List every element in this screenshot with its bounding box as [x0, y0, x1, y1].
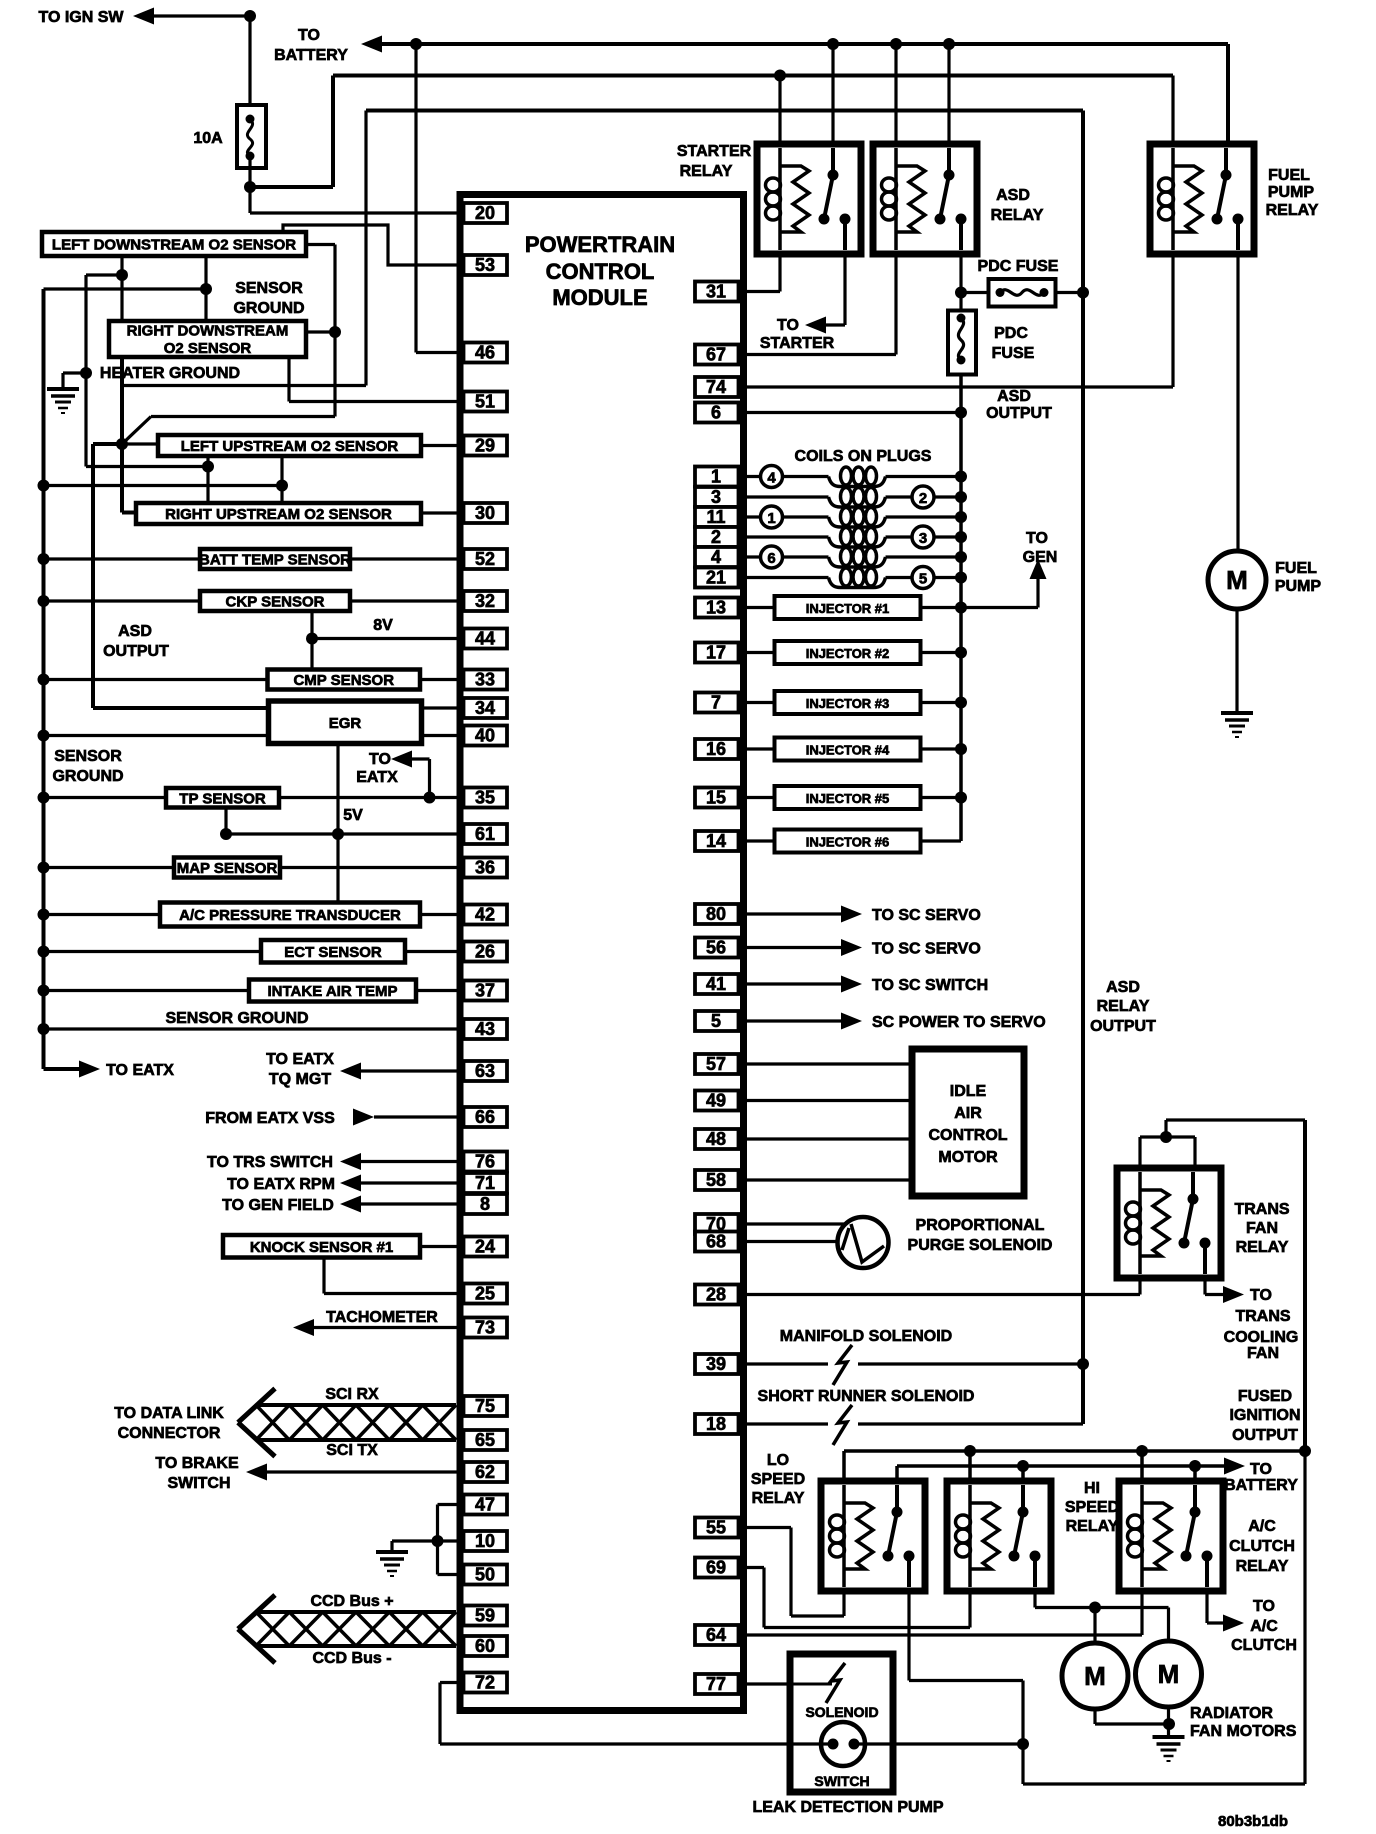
ground symbol (fuel pump) — [1221, 713, 1253, 737]
svg-text:RELAY: RELAY — [1097, 998, 1150, 1015]
node TO GEN — [961, 530, 1057, 608]
svg-text:57: 57 — [706, 1054, 726, 1074]
svg-text:CCD Bus +: CCD Bus + — [310, 1593, 393, 1610]
svg-text:72: 72 — [475, 1673, 495, 1693]
pin 73 (left) — [464, 1318, 508, 1338]
wire starter relay switch to battery rail — [831, 44, 834, 144]
svg-text:FUSED: FUSED — [1238, 1388, 1292, 1405]
label ASD RELAY OUTPUT (net) — [1090, 979, 1156, 1035]
wire map sensor to pin 36 — [280, 866, 464, 869]
relay hi speed relay — [947, 1481, 1051, 1591]
svg-text:MAP SENSOR: MAP SENSOR — [177, 860, 278, 877]
svg-text:8: 8 — [480, 1194, 490, 1214]
svg-text:OUTPUT: OUTPUT — [103, 643, 169, 660]
svg-text:30: 30 — [475, 503, 495, 523]
svg-text:18: 18 — [706, 1414, 726, 1434]
label SCI TX — [326, 1442, 378, 1459]
svg-text:INJECTOR #5: INJECTOR #5 — [806, 791, 890, 806]
svg-text:ASD: ASD — [118, 623, 152, 640]
svg-text:STARTER: STARTER — [760, 335, 835, 352]
cylinder number 4 — [761, 466, 783, 488]
label SENSOR GROUND (mid-left) — [52, 748, 123, 785]
sensor INTAKE AIR TEMP — [38, 985, 250, 997]
svg-text:58: 58 — [706, 1170, 726, 1190]
injector #3 — [775, 691, 921, 714]
svg-text:14: 14 — [706, 831, 726, 851]
pin 40 (left) — [464, 726, 508, 746]
svg-text:FAN MOTORS: FAN MOTORS — [1190, 1723, 1297, 1740]
wire pin 68 to purge solenoid — [739, 1240, 838, 1243]
label 80b3b1db — [1218, 1813, 1288, 1830]
sensor KNOCK SENSOR #1 — [223, 1235, 420, 1258]
node HEATER GROUND — [80, 365, 240, 382]
pin 10 (left) — [464, 1531, 508, 1551]
svg-text:80b3b1db: 80b3b1db — [1218, 1813, 1288, 1830]
wire EGR to pin 34 — [422, 706, 464, 709]
pin 7 (right) — [695, 693, 739, 713]
pin 28 (right) — [695, 1285, 739, 1305]
svg-text:24: 24 — [475, 1237, 495, 1257]
svg-text:FAN: FAN — [1247, 1345, 1279, 1362]
cylinder number 5 — [912, 567, 934, 589]
svg-text:40: 40 — [475, 726, 495, 746]
coil inductor row 1 — [829, 467, 886, 487]
coil inductor row 2 — [829, 488, 886, 508]
svg-text:1: 1 — [711, 467, 721, 487]
svg-text:TO SC SWITCH: TO SC SWITCH — [872, 977, 988, 994]
pin 1 (right) — [695, 467, 739, 487]
node FROM EATX VSS — [205, 1109, 463, 1128]
switch (leak detection pump) — [814, 1722, 869, 1789]
svg-text:49: 49 — [706, 1091, 726, 1111]
svg-text:2: 2 — [919, 490, 927, 507]
svg-text:A/C PRESSURE TRANSDUCER: A/C PRESSURE TRANSDUCER — [179, 907, 401, 924]
wire EGR to pin 40 — [422, 734, 464, 737]
svg-text:LEAK DETECTION PUMP: LEAK DETECTION PUMP — [752, 1799, 943, 1816]
pin 62 (left) — [464, 1462, 508, 1482]
svg-text:MODULE: MODULE — [552, 285, 647, 310]
svg-text:31: 31 — [706, 282, 726, 302]
svg-text:42: 42 — [475, 905, 495, 925]
cylinder number 2 — [912, 486, 934, 508]
pin 50 (left) — [464, 1565, 508, 1585]
ignition coil row (cylinder 1) — [739, 511, 968, 523]
net SENSOR GROUND to pin 43 — [38, 1010, 464, 1035]
label ASD OUTPUT (left) — [103, 623, 169, 660]
svg-text:35: 35 — [475, 788, 495, 808]
svg-text:65: 65 — [475, 1430, 495, 1450]
pin 26 (left) — [464, 942, 508, 962]
svg-text:INJECTOR #3: INJECTOR #3 — [806, 696, 890, 711]
svg-text:FUEL: FUEL — [1268, 167, 1310, 184]
solenoid proportional purge solenoid — [838, 1217, 889, 1268]
pin 8 (left) — [464, 1194, 508, 1214]
wire ignition feed rail (second) — [333, 70, 1173, 82]
svg-text:11: 11 — [706, 507, 725, 527]
motor fuel pump — [1208, 551, 1266, 609]
label A/C CLUTCH RELAY — [1229, 1518, 1295, 1575]
svg-text:TO BRAKE: TO BRAKE — [155, 1455, 239, 1472]
svg-text:CONTROL: CONTROL — [928, 1127, 1007, 1144]
svg-text:SENSOR GROUND: SENSOR GROUND — [165, 1010, 308, 1027]
wire pin 6 to asd output junction — [739, 411, 962, 414]
sensor RIGHT UPSTREAM O2 SENSOR — [136, 503, 421, 524]
svg-text:CCD Bus -: CCD Bus - — [312, 1650, 391, 1667]
relay lo speed relay — [821, 1481, 925, 1591]
svg-text:73: 73 — [475, 1318, 495, 1338]
pin 52 (left) — [464, 549, 508, 569]
svg-text:4: 4 — [711, 547, 721, 567]
svg-text:66: 66 — [475, 1107, 495, 1127]
motor radiator fan motor (right) — [1136, 1641, 1202, 1707]
svg-text:TO TRS SWITCH: TO TRS SWITCH — [207, 1154, 333, 1171]
node TO GEN FIELD — [222, 1196, 463, 1215]
svg-text:62: 62 — [475, 1462, 495, 1482]
coil inductor row 5 — [829, 548, 886, 568]
wire cmp sensor to pin 33 — [420, 678, 464, 681]
svg-text:69: 69 — [706, 1558, 726, 1578]
wire pin 64 to a/c clutch relay coil — [739, 1591, 1143, 1635]
wire pin 49 to idle air control motor — [739, 1099, 913, 1102]
pin 15 (right) — [695, 788, 739, 808]
svg-text:RELAY: RELAY — [1236, 1239, 1289, 1256]
wire pin 55 to lo speed relay coil — [739, 1528, 845, 1617]
wire pins 47/10/50 common — [432, 1505, 464, 1575]
svg-text:71: 71 — [475, 1173, 495, 1193]
wire pin 77 to leak detection pump — [739, 1682, 791, 1685]
sensor LEFT UPSTREAM O2 SENSOR — [158, 435, 421, 456]
pin 37 (left) — [464, 981, 508, 1001]
svg-text:LEFT DOWNSTREAM O2 SENSOR: LEFT DOWNSTREAM O2 SENSOR — [52, 237, 296, 254]
svg-text:TO SC SERVO: TO SC SERVO — [872, 941, 981, 958]
pin 3 (right) — [695, 487, 739, 507]
pin 32 (left) — [464, 591, 508, 611]
node TO BRAKE SWITCH — [155, 1455, 463, 1492]
wire battery rail drop to fuel pump relay switch — [1226, 44, 1230, 150]
svg-text:INJECTOR #6: INJECTOR #6 — [806, 835, 890, 850]
svg-text:TO: TO — [369, 751, 391, 768]
pin 41 (right) — [695, 974, 739, 994]
svg-text:13: 13 — [706, 598, 726, 618]
pin 47 (left) — [464, 1495, 508, 1515]
svg-text:CLUTCH: CLUTCH — [1231, 1637, 1297, 1654]
pin 39 (right) — [695, 1354, 739, 1374]
svg-text:TP SENSOR: TP SENSOR — [179, 790, 266, 807]
pin 48 (right) — [695, 1129, 739, 1149]
pin 25 (left) — [464, 1284, 508, 1304]
svg-text:10A: 10A — [193, 130, 223, 147]
node TO SC SWITCH (pin 41) — [739, 976, 989, 995]
node TACHOMETER — [293, 1309, 464, 1336]
pin 34 (left) — [464, 698, 508, 718]
wire ign switch to fuse — [154, 10, 256, 112]
wire trans fan relay feed (fused ignition) — [1140, 1120, 1305, 1168]
svg-text:HI: HI — [1084, 1480, 1100, 1497]
svg-text:TRANS: TRANS — [1235, 1308, 1290, 1325]
wire knock sensor to pin 25 — [324, 1258, 464, 1294]
svg-text:29: 29 — [475, 436, 495, 456]
svg-text:M: M — [1158, 1659, 1180, 1689]
motor radiator fan motor (left) — [1062, 1643, 1128, 1709]
node TO EATX (bottom of bus) — [44, 1061, 175, 1080]
relay ASD relay — [873, 144, 977, 254]
svg-text:41: 41 — [706, 974, 726, 994]
svg-text:56: 56 — [706, 938, 726, 958]
wire asd output rail (left) — [93, 444, 269, 708]
svg-text:SPEED: SPEED — [1065, 1499, 1119, 1516]
pin 29 (left) — [464, 436, 508, 456]
svg-text:63: 63 — [475, 1061, 495, 1081]
svg-text:OUTPUT: OUTPUT — [1090, 1018, 1156, 1035]
wire left downstream O2 sensor to right downstream (leg A) — [116, 256, 128, 321]
svg-text:6: 6 — [711, 403, 721, 423]
svg-text:47: 47 — [475, 1495, 495, 1515]
pin 42 (left) — [464, 905, 508, 925]
pin 55 (right) — [695, 1518, 739, 1538]
svg-text:TO: TO — [777, 317, 799, 334]
svg-text:TO: TO — [1250, 1461, 1272, 1478]
coil inductor row 6 — [829, 568, 886, 588]
wire fuse junction to ignition feed rail — [250, 76, 333, 188]
svg-text:M: M — [1226, 565, 1248, 595]
svg-text:TRANS: TRANS — [1234, 1201, 1289, 1218]
label HI SPEED RELAY — [1065, 1480, 1119, 1535]
pin 66 (left) — [464, 1107, 508, 1127]
node TO BATTERY — [274, 27, 382, 64]
pin 4 (right) — [695, 547, 739, 567]
svg-text:SHORT RUNNER SOLENOID: SHORT RUNNER SOLENOID — [758, 1388, 975, 1405]
svg-text:37: 37 — [475, 981, 495, 1001]
svg-text:BATTERY: BATTERY — [1224, 1477, 1298, 1494]
svg-text:SOLENOID: SOLENOID — [805, 1704, 878, 1720]
svg-text:INJECTOR #4: INJECTOR #4 — [806, 743, 890, 758]
svg-text:16: 16 — [706, 739, 726, 759]
node TO BATTERY (bottom) — [1224, 1458, 1298, 1495]
svg-text:5: 5 — [919, 571, 927, 588]
label 5V — [343, 807, 363, 824]
svg-text:SCI RX: SCI RX — [325, 1386, 379, 1403]
svg-text:PURGE SOLENOID: PURGE SOLENOID — [908, 1237, 1053, 1254]
wire heater ground rail horizontal — [122, 384, 366, 387]
wire asd relay output to pdc fuses — [955, 254, 967, 311]
ignition coil row (cylinder 5) — [739, 572, 968, 584]
wire asd relay coil top to battery rail — [894, 44, 897, 144]
injector #2 — [775, 641, 921, 664]
node SC POWER TO SERVO (pin 5) — [739, 1013, 1046, 1032]
relay trans fan relay — [1117, 1168, 1221, 1278]
bus SCI RX / SCI TX data link — [238, 1389, 456, 1457]
wire sensor ground branch (leg B) — [200, 256, 212, 321]
wire hi speed relay switch to radiator fan motors — [1035, 1591, 1169, 1643]
pin 46 (left) — [464, 343, 508, 363]
wire leak pump switch line — [790, 1738, 1029, 1750]
wire asd relay switch to battery rail — [947, 44, 950, 144]
node TO EATX (mid) — [356, 751, 412, 787]
pin 24 (left) — [464, 1237, 508, 1257]
wire EGR to 5V rail — [332, 744, 344, 841]
pin 67 (right) — [695, 345, 739, 365]
svg-text:O2 SENSOR: O2 SENSOR — [164, 340, 252, 357]
net ASD OUTPUT — [955, 375, 1052, 477]
svg-text:80: 80 — [706, 904, 726, 924]
svg-text:36: 36 — [475, 858, 495, 878]
svg-text:PUMP: PUMP — [1268, 184, 1315, 201]
wire fuel pump relay coil top to ignition rail — [1171, 76, 1174, 145]
svg-text:33: 33 — [475, 670, 495, 690]
wire battery rail (top) — [382, 38, 1228, 50]
wire batt temp sensor to pin 52 — [350, 557, 464, 560]
pin 56 (right) — [695, 938, 739, 958]
svg-text:21: 21 — [706, 568, 726, 588]
svg-text:MOTOR: MOTOR — [938, 1149, 998, 1166]
svg-text:STARTER: STARTER — [677, 143, 752, 160]
wire sensor ground to upstream sensors — [38, 480, 289, 492]
svg-text:RELAY: RELAY — [1236, 1558, 1289, 1575]
sensor ECT SENSOR — [38, 946, 262, 958]
pin 35 (left) — [464, 788, 508, 808]
injector #1 — [775, 596, 921, 619]
wire sensor ground to left bus — [44, 287, 207, 290]
solenoid manifold solenoid (pin 39) — [739, 1345, 1090, 1385]
wire right downstream O2 sensor to pin 51 — [289, 357, 464, 402]
svg-text:TACHOMETER: TACHOMETER — [326, 1309, 438, 1326]
svg-text:TO SC SERVO: TO SC SERVO — [872, 907, 981, 924]
pin 30 (left) — [464, 503, 508, 523]
svg-text:64: 64 — [706, 1625, 726, 1645]
svg-text:75: 75 — [475, 1396, 495, 1416]
svg-text:RELAY: RELAY — [680, 163, 733, 180]
pin 80 (right) — [695, 904, 739, 924]
wire coil bus vertical — [959, 477, 963, 842]
svg-text:PDC FUSE: PDC FUSE — [978, 258, 1059, 275]
svg-text:44: 44 — [475, 629, 495, 649]
wire heater ground dot to ground — [63, 373, 86, 388]
svg-text:SWITCH: SWITCH — [814, 1773, 869, 1789]
wire asd output to pdc fuse — [961, 291, 989, 294]
pin 64 (right) — [695, 1625, 739, 1645]
pin 16 (right) — [695, 739, 739, 759]
wire a/c pressure transducer to pin 42 — [420, 913, 464, 916]
wire injector #5 connections — [739, 792, 968, 804]
wire node C riser to left downstream output — [306, 245, 335, 417]
wire pin 70 to purge solenoid — [739, 1222, 846, 1225]
svg-text:4: 4 — [767, 470, 776, 487]
svg-text:SC POWER TO SERVO: SC POWER TO SERVO — [872, 1014, 1046, 1031]
pin 11 (right) — [695, 507, 739, 527]
label ASD RELAY — [991, 187, 1044, 224]
svg-text:IDLE: IDLE — [950, 1083, 987, 1100]
wire ckp to cmp 8V feed — [306, 611, 318, 670]
ignition coil row (cylinder 3) — [739, 531, 968, 543]
label SHORT RUNNER SOLENOID — [758, 1388, 975, 1405]
pin 72 (left) — [464, 1673, 508, 1693]
svg-text:LEFT UPSTREAM O2 SENSOR: LEFT UPSTREAM O2 SENSOR — [181, 438, 399, 455]
svg-text:TO EATX: TO EATX — [106, 1062, 174, 1079]
svg-text:TO: TO — [1250, 1287, 1272, 1304]
svg-text:CKP SENSOR: CKP SENSOR — [226, 594, 325, 611]
svg-text:7: 7 — [711, 693, 721, 713]
node TO SC SERVO (pin 80) — [739, 906, 981, 925]
pin 53 (left) — [464, 255, 508, 275]
svg-text:39: 39 — [706, 1354, 726, 1374]
wire to eatx tap on pin 35 line — [412, 759, 436, 804]
svg-text:TO: TO — [1026, 530, 1048, 547]
pin 58 (right) — [695, 1170, 739, 1190]
svg-text:TO EATX RPM: TO EATX RPM — [227, 1176, 335, 1193]
label FUEL PUMP RELAY — [1266, 167, 1319, 219]
wire injector #4 connections — [739, 743, 968, 755]
svg-text:3: 3 — [711, 487, 721, 507]
label TRANS FAN RELAY — [1234, 1201, 1289, 1256]
wire left upstream O2 sensor to pin 29 — [421, 444, 464, 447]
idle air control motor — [912, 1049, 1024, 1196]
svg-text:EATX: EATX — [356, 769, 398, 786]
cylinder number 3 — [912, 526, 934, 548]
wire injector #2 connections — [739, 647, 968, 659]
svg-text:IGNITION: IGNITION — [1229, 1407, 1300, 1424]
svg-text:GROUND: GROUND — [233, 300, 304, 317]
svg-text:KNOCK SENSOR #1: KNOCK SENSOR #1 — [250, 1239, 393, 1256]
coil inductor row 4 — [829, 528, 886, 548]
junction below fuse — [244, 156, 256, 213]
svg-text:A/C: A/C — [1248, 1518, 1276, 1535]
injector #5 — [775, 786, 921, 809]
pin 14 (right) — [695, 831, 739, 851]
wire ckp sensor to pin 32 — [350, 599, 464, 602]
leak detection pump assembly — [790, 1654, 893, 1792]
relay a/c clutch relay — [1119, 1481, 1223, 1591]
svg-text:1: 1 — [767, 510, 775, 527]
pin 5 (right) — [695, 1011, 739, 1031]
svg-text:61: 61 — [475, 824, 495, 844]
svg-text:INJECTOR #1: INJECTOR #1 — [806, 601, 890, 616]
wire injector #1 connections — [739, 602, 968, 614]
pin 51 (left) — [464, 392, 508, 412]
wire battery tap to pin 46 — [416, 44, 464, 353]
wire 8V to pin 44 — [312, 637, 464, 640]
svg-text:CONTROL: CONTROL — [546, 259, 655, 284]
svg-text:32: 32 — [475, 591, 495, 611]
svg-text:MANIFOLD SOLENOID: MANIFOLD SOLENOID — [780, 1328, 952, 1345]
svg-text:17: 17 — [706, 643, 726, 663]
svg-text:25: 25 — [475, 1284, 495, 1304]
pin 6 (right) — [695, 403, 739, 423]
svg-text:OUTPUT: OUTPUT — [1232, 1427, 1298, 1444]
wire fused ignition rail to relay coils — [844, 1445, 1311, 1481]
label COILS ON PLUGS — [795, 448, 932, 465]
wire right downstream heater leg to right upstream sensor — [116, 357, 136, 513]
pin 31 (right) — [695, 282, 739, 302]
svg-text:ASD: ASD — [1106, 979, 1140, 996]
injector #6 — [775, 830, 921, 853]
svg-text:COILS ON PLUGS: COILS ON PLUGS — [795, 448, 932, 465]
node TO EATX TQ MGT — [266, 1051, 463, 1088]
sensor LEFT DOWNSTREAM O2 SENSOR — [42, 232, 306, 256]
pin 68 (right) — [695, 1232, 739, 1252]
svg-text:RELAY: RELAY — [1266, 202, 1319, 219]
label RADIATOR FAN MOTORS — [1190, 1705, 1297, 1740]
svg-text:ASD: ASD — [997, 388, 1031, 405]
svg-text:BATT TEMP SENSOR: BATT TEMP SENSOR — [199, 552, 351, 569]
label FUSED IGNITION OUTPUT — [1229, 1388, 1300, 1444]
svg-text:PUMP: PUMP — [1275, 578, 1322, 595]
svg-text:TO GEN FIELD: TO GEN FIELD — [222, 1197, 334, 1214]
svg-text:FUEL: FUEL — [1275, 560, 1317, 577]
wire junction to ground — [392, 1541, 438, 1551]
svg-text:26: 26 — [475, 942, 495, 962]
svg-text:M: M — [1084, 1661, 1106, 1691]
svg-text:10: 10 — [475, 1531, 495, 1551]
